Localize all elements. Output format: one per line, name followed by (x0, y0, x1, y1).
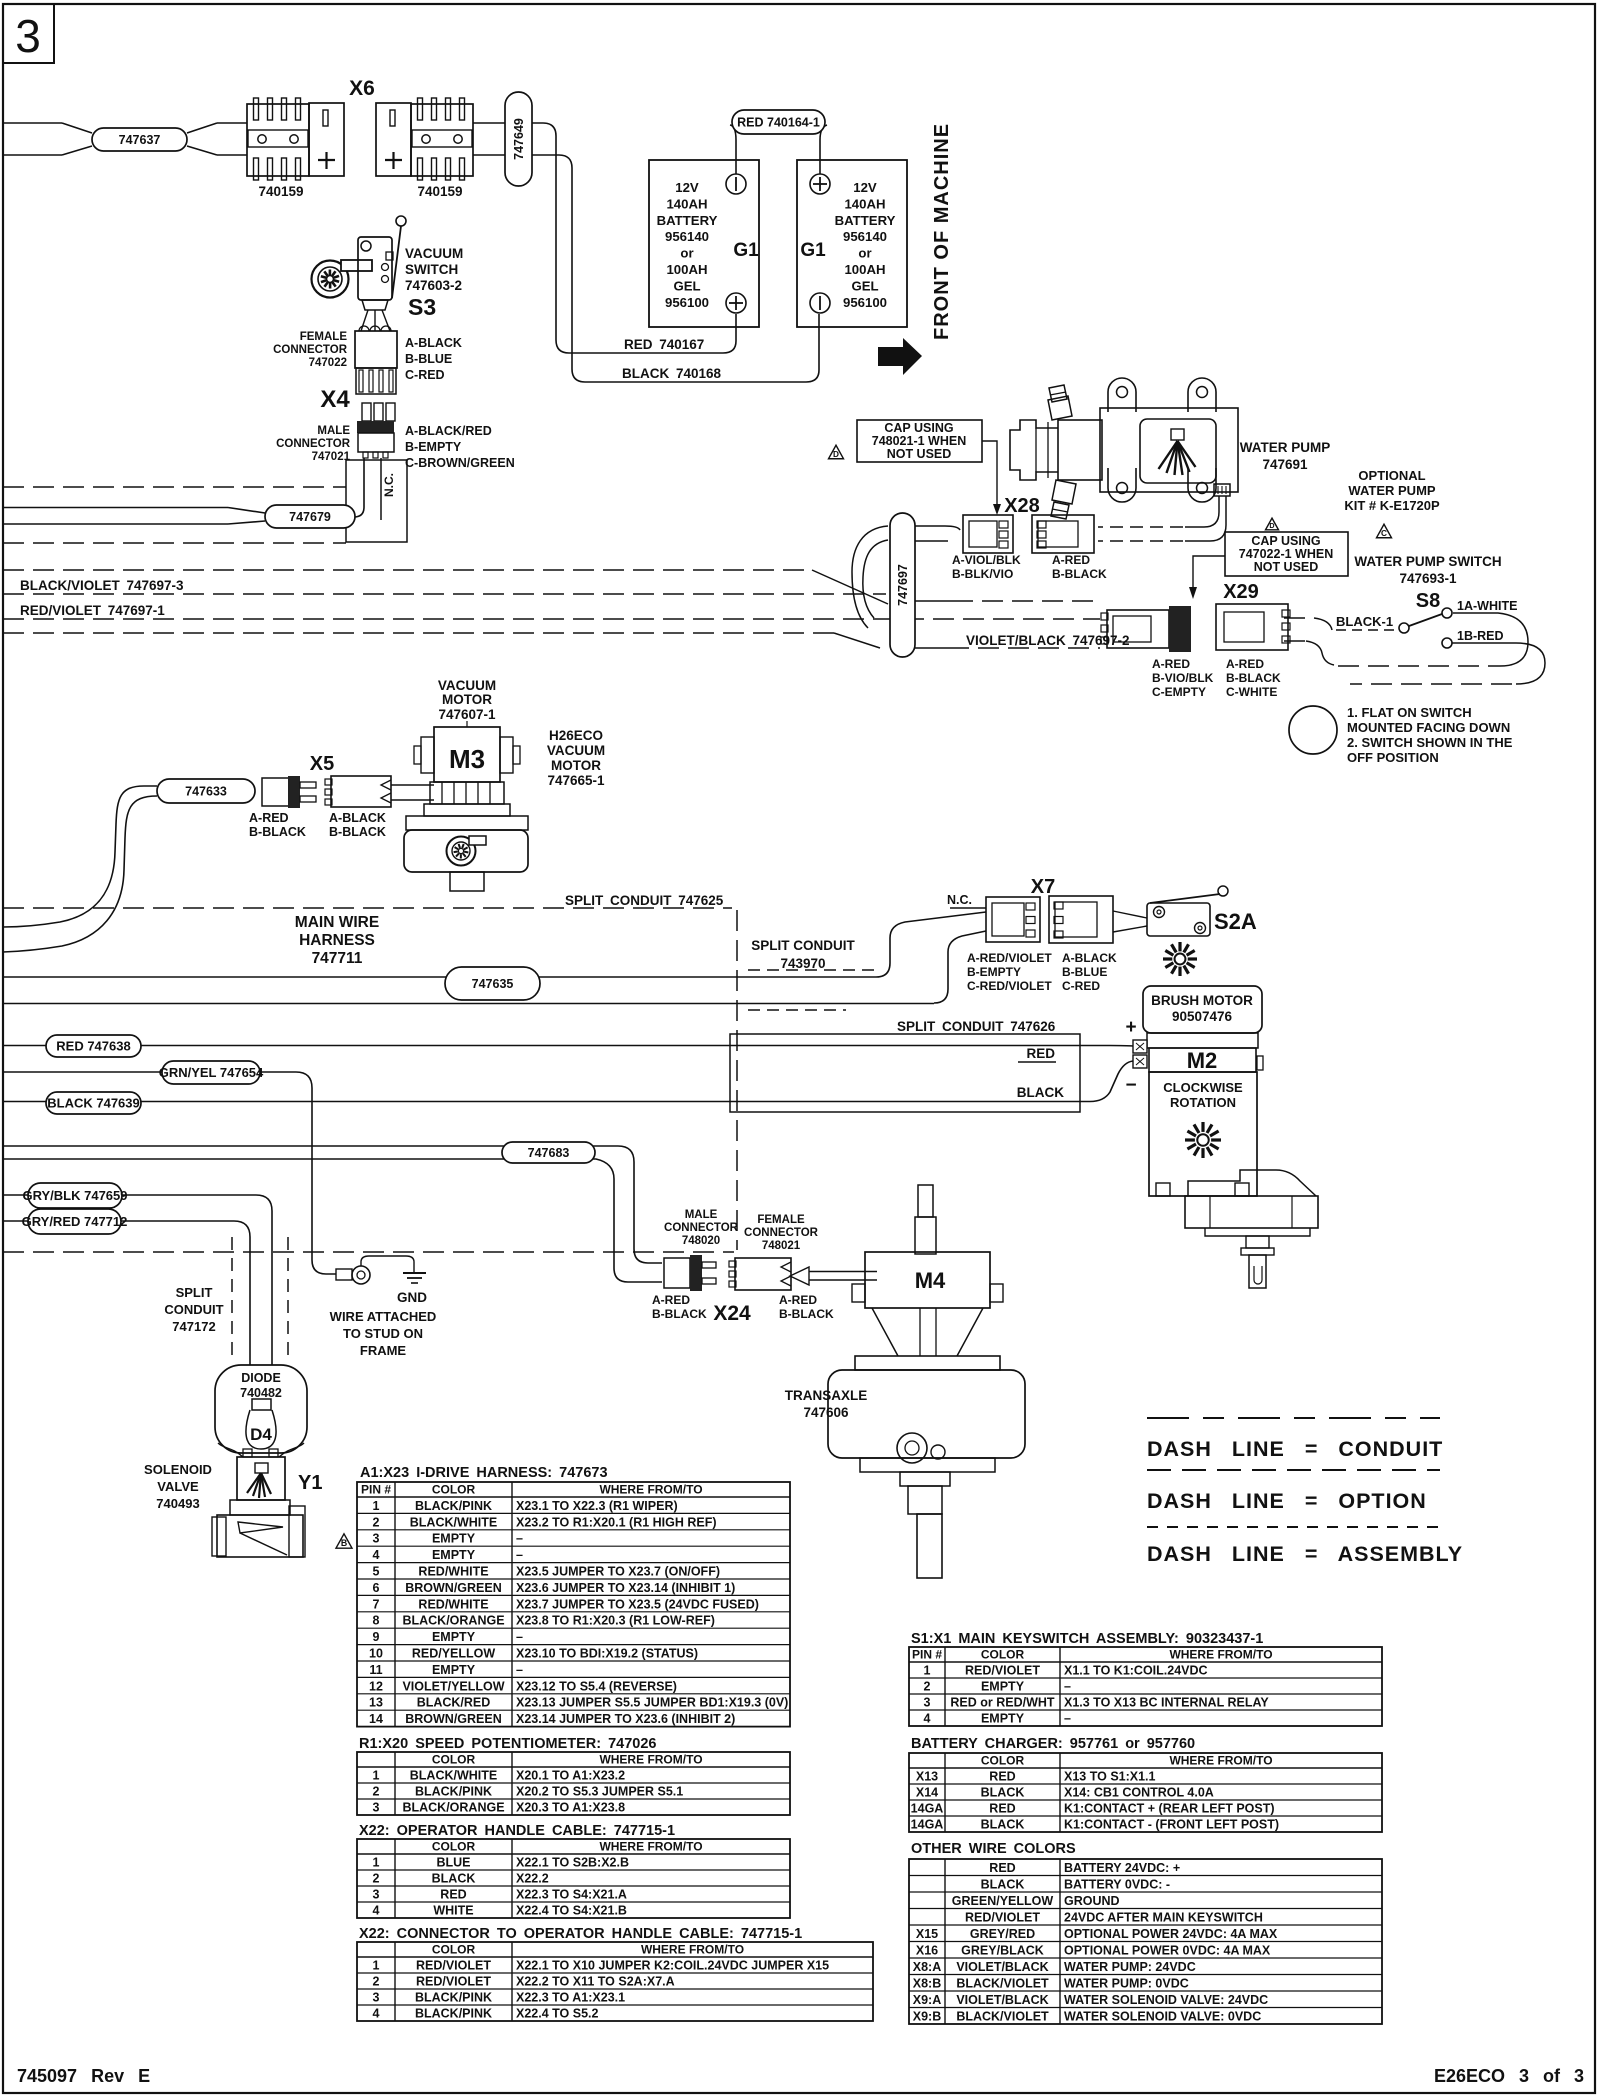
svg-text:CONNECTOR: CONNECTOR (664, 1222, 739, 1234)
svg-text:X22.2: X22.2 (516, 1872, 549, 1886)
svg-text:A-BLACK/RED: A-BLACK/RED (405, 424, 492, 438)
svg-text:VACUUM: VACUUM (405, 246, 463, 261)
svg-text:X23.1 TO X22.3 (R1 WIPER): X23.1 TO X22.3 (R1 WIPER) (516, 1499, 678, 1513)
svg-text:BATTERY 0VDC: -: BATTERY 0VDC: - (1064, 1878, 1170, 1892)
svg-text:WHERE FROM/TO: WHERE FROM/TO (599, 1483, 702, 1497)
svg-text:RED/WHITE: RED/WHITE (418, 1565, 488, 1579)
svg-text:BLUE: BLUE (436, 1856, 470, 1870)
svg-text:X15: X15 (916, 1927, 938, 1941)
svg-text:X23.7 JUMPER TO X23.5 (24V: X23.7 JUMPER TO X23.5 (24VDC FUSED) (516, 1597, 759, 1611)
svg-text:–: – (1064, 1712, 1071, 1726)
svg-text:B-EMPTY: B-EMPTY (405, 440, 462, 454)
svg-text:BLACK: BLACK (432, 1872, 476, 1886)
svg-text:X22: OPERATOR HANDLE CABLE:: X22: OPERATOR HANDLE CABLE: 747715-1 (359, 1823, 675, 1839)
svg-text:2: 2 (373, 1515, 380, 1529)
svg-text:747606: 747606 (803, 1405, 849, 1420)
svg-text:BROWN/GREEN: BROWN/GREEN (405, 1712, 502, 1726)
svg-text:C-RED/VIOLET: C-RED/VIOLET (967, 979, 1052, 993)
svg-text:BATTERY: BATTERY (657, 213, 718, 228)
svg-text:740159: 740159 (258, 184, 303, 199)
svg-text:B-BLACK: B-BLACK (329, 825, 386, 839)
svg-text:A-RED: A-RED (652, 1293, 690, 1307)
svg-text:G1: G1 (733, 240, 759, 261)
svg-text:B-BLACK: B-BLACK (249, 825, 306, 839)
svg-text:4: 4 (373, 1904, 380, 1918)
svg-text:BLACK: BLACK (981, 1786, 1025, 1800)
svg-text:1: 1 (924, 1664, 931, 1678)
svg-text:745097 Rev E: 745097 Rev E (17, 2066, 150, 2086)
svg-text:X16: X16 (916, 1944, 938, 1958)
svg-text:X23.8 TO R1:X20.3 (R1 LOW-: X23.8 TO R1:X20.3 (R1 LOW-REF) (516, 1614, 715, 1628)
svg-text:12V: 12V (675, 180, 699, 195)
svg-text:747022: 747022 (309, 357, 347, 369)
svg-text:VIOLET/YELLOW: VIOLET/YELLOW (402, 1679, 504, 1693)
svg-text:H26ECO: H26ECO (549, 728, 603, 743)
svg-text:747693-1: 747693-1 (1399, 571, 1457, 586)
svg-text:N.C.: N.C. (947, 893, 972, 907)
svg-text:3: 3 (15, 10, 41, 62)
svg-text:X7: X7 (1031, 876, 1055, 898)
svg-text:3: 3 (373, 1991, 380, 2005)
svg-text:X4: X4 (320, 386, 350, 413)
svg-text:COLOR: COLOR (432, 1943, 476, 1957)
svg-text:BRUSH MOTOR: BRUSH MOTOR (1151, 993, 1253, 1008)
svg-text:–: – (516, 1630, 523, 1644)
svg-text:1A-WHITE: 1A-WHITE (1457, 599, 1517, 613)
svg-text:3: 3 (373, 1801, 380, 1815)
svg-text:A-RED: A-RED (1226, 657, 1264, 671)
svg-text:GREY/BLACK: GREY/BLACK (961, 1944, 1044, 1958)
svg-text:747172: 747172 (172, 1319, 215, 1334)
svg-text:2: 2 (924, 1680, 931, 1694)
svg-text:OPTIONAL: OPTIONAL (1358, 468, 1425, 483)
svg-text:X23.13 JUMPER S5.5 JUMPER: X23.13 JUMPER S5.5 JUMPER BD1:X19.3 (0V) (516, 1696, 788, 1710)
svg-text:1: 1 (373, 1856, 380, 1870)
svg-text:BLACK/PINK: BLACK/PINK (415, 1499, 492, 1513)
svg-text:C-WHITE: C-WHITE (1226, 685, 1277, 699)
svg-text:X22.3 TO A1:X23.1: X22.3 TO A1:X23.1 (516, 1991, 625, 2005)
svg-text:S8: S8 (1416, 590, 1440, 612)
svg-text:WHERE FROM/TO: WHERE FROM/TO (641, 1943, 744, 1957)
svg-text:GRY/RED 747712: GRY/RED 747712 (22, 1214, 128, 1229)
svg-text:DIODE: DIODE (241, 1371, 281, 1385)
svg-text:747021: 747021 (312, 451, 351, 463)
svg-text:X23.5 JUMPER TO X23.7 (ON/: X23.5 JUMPER TO X23.7 (ON/OFF) (516, 1565, 720, 1579)
svg-text:D: D (833, 450, 839, 459)
svg-text:+: + (1125, 1017, 1136, 1038)
svg-text:WATER PUMP: 0VDC: WATER PUMP: 0VDC (1064, 1977, 1189, 1991)
svg-text:740493: 740493 (156, 1496, 199, 1511)
svg-text:CONNECTOR: CONNECTOR (744, 1227, 819, 1239)
svg-text:FEMALE: FEMALE (300, 331, 348, 343)
svg-text:ROTATION: ROTATION (1170, 1095, 1236, 1110)
svg-text:747637: 747637 (119, 133, 161, 147)
svg-text:90507476: 90507476 (1172, 1009, 1233, 1024)
svg-text:RED: RED (989, 1861, 1015, 1875)
svg-text:B-BLUE: B-BLUE (1062, 965, 1107, 979)
svg-text:24VDC AFTER MAIN KEYSWITCH: 24VDC AFTER MAIN KEYSWITCH (1064, 1911, 1263, 1925)
svg-text:956140: 956140 (843, 229, 887, 244)
svg-text:BLACK/PINK: BLACK/PINK (415, 2007, 492, 2021)
svg-text:TRANSAXLE: TRANSAXLE (785, 1388, 868, 1403)
svg-text:1: 1 (373, 1959, 380, 1973)
svg-text:OTHER WIRE COLORS: OTHER WIRE COLORS (911, 1841, 1076, 1857)
svg-text:WHERE FROM/TO: WHERE FROM/TO (599, 1840, 702, 1854)
svg-text:3: 3 (373, 1888, 380, 1902)
svg-text:A-RED/VIOLET: A-RED/VIOLET (967, 951, 1052, 965)
svg-text:X22.1 TO S2B:X2.B: X22.1 TO S2B:X2.B (516, 1856, 629, 1870)
svg-text:RED 740164-1: RED 740164-1 (737, 115, 820, 129)
svg-text:X23.14 JUMPER TO X23.6 (IN: X23.14 JUMPER TO X23.6 (INHIBIT 2) (516, 1712, 735, 1726)
svg-text:X13: X13 (916, 1770, 938, 1784)
svg-text:BLACK/VIOLET: BLACK/VIOLET (956, 1977, 1049, 1991)
svg-text:B-BLACK: B-BLACK (1226, 671, 1281, 685)
svg-text:BLACK/VIOLET 747697-3: BLACK/VIOLET 747697-3 (20, 578, 184, 593)
svg-text:BLACK 740168: BLACK 740168 (622, 366, 722, 381)
svg-text:RED/VIOLET: RED/VIOLET (965, 1911, 1040, 1925)
svg-text:X23.10 TO BDI:X19.2 (STATUS: X23.10 TO BDI:X19.2 (STATUS) (516, 1647, 698, 1661)
svg-text:NOT USED: NOT USED (887, 447, 952, 461)
svg-text:140AH: 140AH (844, 196, 885, 211)
svg-text:956140: 956140 (665, 229, 709, 244)
svg-text:E26ECO 3 of 3: E26ECO 3 of 3 (1434, 2066, 1584, 2086)
svg-text:X23.12 TO S5.4 (REVERSE): X23.12 TO S5.4 (REVERSE) (516, 1679, 677, 1693)
svg-text:WHERE FROM/TO: WHERE FROM/TO (599, 1753, 702, 1767)
svg-text:–: – (516, 1548, 523, 1562)
svg-text:M4: M4 (915, 1268, 946, 1293)
svg-text:RED: RED (440, 1888, 466, 1902)
svg-text:956100: 956100 (843, 295, 887, 310)
svg-text:X28: X28 (1004, 495, 1040, 517)
svg-text:4: 4 (373, 1548, 380, 1562)
svg-text:747635: 747635 (472, 977, 514, 991)
svg-text:X22: CONNECTOR TO OPERATOR: X22: CONNECTOR TO OPERATOR HANDLE CABLE:… (359, 1926, 802, 1942)
svg-text:748020: 748020 (682, 1235, 720, 1247)
svg-text:X9:B: X9:B (913, 2010, 941, 2024)
svg-text:GRN/YEL 747654: GRN/YEL 747654 (159, 1065, 264, 1080)
svg-text:GREY/RED: GREY/RED (970, 1927, 1035, 1941)
svg-text:KIT # K-E1720P: KIT # K-E1720P (1344, 498, 1440, 513)
svg-text:X23.6 JUMPER TO X23.14 (IN: X23.6 JUMPER TO X23.14 (INHIBIT 1) (516, 1581, 735, 1595)
svg-text:B-EMPTY: B-EMPTY (967, 965, 1021, 979)
svg-text:OFF POSITION: OFF POSITION (1347, 750, 1439, 765)
svg-text:956100: 956100 (665, 295, 709, 310)
svg-text:12: 12 (369, 1679, 383, 1693)
svg-text:A-BLACK: A-BLACK (1062, 951, 1117, 965)
svg-text:747691: 747691 (1262, 457, 1308, 472)
svg-text:X22.3 TO S4:X21.A: X22.3 TO S4:X21.A (516, 1888, 627, 1902)
svg-text:SPLIT CONDUIT: SPLIT CONDUIT (751, 938, 855, 953)
svg-text:SWITCH: SWITCH (405, 262, 458, 277)
svg-text:C: C (1381, 529, 1387, 538)
svg-text:RED/VIOLET 747697-1: RED/VIOLET 747697-1 (20, 603, 165, 618)
svg-text:EMPTY: EMPTY (432, 1532, 476, 1546)
svg-text:14: 14 (369, 1712, 383, 1726)
svg-text:–: – (1064, 1680, 1071, 1694)
svg-text:140AH: 140AH (666, 196, 707, 211)
svg-text:X20.2 TO S5.3 JUMPER S5.1: X20.2 TO S5.3 JUMPER S5.1 (516, 1785, 683, 1799)
svg-text:2: 2 (373, 1975, 380, 1989)
svg-text:SPLIT CONDUIT 747625: SPLIT CONDUIT 747625 (565, 893, 724, 908)
svg-text:G1: G1 (800, 240, 826, 261)
svg-text:X22.1 TO X10 JUMPER K2:COI: X22.1 TO X10 JUMPER K2:COIL.24VDC JUMPER… (516, 1959, 829, 1973)
svg-text:RED: RED (989, 1802, 1015, 1816)
svg-text:WATER PUMP: WATER PUMP (1240, 440, 1331, 455)
svg-text:BLACK/PINK: BLACK/PINK (415, 1785, 492, 1799)
svg-text:WHITE: WHITE (433, 1904, 473, 1918)
svg-text:FRAME: FRAME (360, 1343, 407, 1358)
svg-text:MALE: MALE (685, 1209, 718, 1221)
svg-text:–: – (516, 1663, 523, 1677)
svg-text:BATTERY: BATTERY (835, 213, 896, 228)
svg-text:X14: CB1 CONTROL 4.0A: X14: CB1 CONTROL 4.0A (1064, 1786, 1214, 1800)
svg-text:10: 10 (369, 1647, 383, 1661)
svg-text:X9:A: X9:A (913, 1993, 941, 2007)
svg-text:OPTIONAL POWER 0VDC: 4A MA: OPTIONAL POWER 0VDC: 4A MAX (1064, 1944, 1271, 1958)
svg-text:RED/WHITE: RED/WHITE (418, 1597, 488, 1611)
svg-text:EMPTY: EMPTY (981, 1680, 1025, 1694)
svg-text:BLACK: BLACK (981, 1878, 1025, 1892)
svg-text:14GA: 14GA (911, 1818, 944, 1832)
svg-text:BLACK/RED: BLACK/RED (417, 1696, 491, 1710)
svg-text:K1:CONTACT + (REAR LEFT PO: K1:CONTACT + (REAR LEFT POST) (1064, 1802, 1275, 1816)
svg-text:747711: 747711 (312, 950, 363, 967)
svg-text:PIN #: PIN # (361, 1483, 391, 1497)
svg-text:BLACK-1: BLACK-1 (1336, 614, 1393, 629)
svg-text:or: or (858, 246, 871, 261)
svg-text:RED/VIOLET: RED/VIOLET (416, 1975, 491, 1989)
svg-text:GEL: GEL (673, 278, 700, 293)
svg-text:WHERE FROM/TO: WHERE FROM/TO (1169, 1648, 1272, 1662)
svg-text:A-BLACK: A-BLACK (329, 811, 386, 825)
svg-text:CONNECTOR: CONNECTOR (276, 438, 351, 450)
svg-text:3: 3 (924, 1696, 931, 1710)
svg-text:WATER SOLENOID VALVE: 24VDC: WATER SOLENOID VALVE: 24VDC (1064, 1993, 1268, 2007)
svg-text:R1:X20 SPEED POTENTIOMETER:: R1:X20 SPEED POTENTIOMETER: 747026 (359, 1736, 657, 1752)
svg-text:M2: M2 (1187, 1048, 1218, 1073)
svg-text:S3: S3 (408, 294, 436, 320)
svg-text:1: 1 (373, 1769, 380, 1783)
svg-text:1: 1 (373, 1499, 380, 1513)
svg-text:A1:X23 I-DRIVE HARNESS: 747: A1:X23 I-DRIVE HARNESS: 747673 (360, 1465, 608, 1481)
svg-text:2: 2 (373, 1785, 380, 1799)
svg-text:CONDUIT: CONDUIT (164, 1302, 223, 1317)
svg-text:DASH LINE = OPTION: DASH LINE = OPTION (1147, 1489, 1427, 1513)
svg-text:BLACK/VIOLET: BLACK/VIOLET (956, 2010, 1049, 2024)
svg-text:BLACK/WHITE: BLACK/WHITE (410, 1769, 498, 1783)
svg-text:CAP USING: CAP USING (884, 421, 953, 435)
svg-text:BLACK/ORANGE: BLACK/ORANGE (402, 1614, 504, 1628)
svg-text:BLACK: BLACK (981, 1818, 1025, 1832)
svg-text:CLOCKWISE: CLOCKWISE (1163, 1080, 1243, 1095)
svg-text:X20.3 TO A1:X23.8: X20.3 TO A1:X23.8 (516, 1801, 625, 1815)
svg-text:A-RED: A-RED (1052, 553, 1090, 567)
svg-text:14GA: 14GA (911, 1802, 944, 1816)
svg-text:OPTIONAL POWER 24VDC: 4A M: OPTIONAL POWER 24VDC: 4A MAX (1064, 1927, 1278, 1941)
svg-text:747697: 747697 (896, 564, 910, 606)
svg-text:CONNECTOR: CONNECTOR (273, 344, 348, 356)
svg-text:DASH LINE = ASSEMBLY: DASH LINE = ASSEMBLY (1147, 1542, 1463, 1566)
svg-text:C-EMPTY: C-EMPTY (1152, 685, 1206, 699)
svg-text:747679: 747679 (289, 510, 331, 524)
svg-text:BLACK 747639: BLACK 747639 (47, 1096, 140, 1111)
svg-text:GREEN/YELLOW: GREEN/YELLOW (952, 1894, 1054, 1908)
svg-text:B-BLACK: B-BLACK (652, 1307, 707, 1321)
svg-text:VIOLET/BLACK: VIOLET/BLACK (956, 1960, 1048, 1974)
svg-text:WHERE FROM/TO: WHERE FROM/TO (1169, 1754, 1272, 1768)
svg-text:GND: GND (397, 1290, 427, 1305)
svg-text:MOTOR: MOTOR (442, 692, 492, 707)
svg-text:A-RED: A-RED (779, 1293, 817, 1307)
svg-text:RED or RED/WHT: RED or RED/WHT (950, 1696, 1055, 1710)
svg-text:3: 3 (373, 1532, 380, 1546)
svg-text:VIOLET/BLACK 747697-2: VIOLET/BLACK 747697-2 (966, 633, 1130, 648)
svg-text:747683: 747683 (528, 1146, 570, 1160)
svg-text:GROUND: GROUND (1064, 1894, 1120, 1908)
svg-text:EMPTY: EMPTY (432, 1548, 476, 1562)
svg-text:EMPTY: EMPTY (981, 1712, 1025, 1726)
svg-text:X14: X14 (916, 1786, 938, 1800)
svg-text:VACUUM: VACUUM (438, 678, 496, 693)
svg-text:747603-2: 747603-2 (405, 278, 462, 293)
svg-text:HARNESS: HARNESS (299, 932, 375, 949)
svg-text:A-RED: A-RED (249, 811, 289, 825)
svg-text:BLACK/PINK: BLACK/PINK (415, 1991, 492, 2005)
svg-text:2. SWITCH SHOWN IN THE: 2. SWITCH SHOWN IN THE (1347, 735, 1513, 750)
svg-text:SPLIT: SPLIT (176, 1285, 213, 1300)
svg-text:RED/VIOLET: RED/VIOLET (416, 1959, 491, 1973)
svg-text:VIOLET/BLACK: VIOLET/BLACK (956, 1993, 1048, 2007)
svg-text:Y1: Y1 (298, 1472, 322, 1494)
svg-text:DASH LINE = CONDUIT: DASH LINE = CONDUIT (1147, 1437, 1443, 1461)
svg-text:VACUUM: VACUUM (547, 743, 605, 758)
svg-text:4: 4 (373, 2007, 380, 2021)
svg-text:WATER PUMP SWITCH: WATER PUMP SWITCH (1354, 554, 1501, 569)
svg-text:RED/VIOLET: RED/VIOLET (965, 1664, 1040, 1678)
svg-text:−: − (1125, 1075, 1136, 1096)
svg-text:747633: 747633 (185, 784, 227, 798)
svg-text:PIN #: PIN # (912, 1648, 942, 1662)
svg-text:X20.1 TO A1:X23.2: X20.1 TO A1:X23.2 (516, 1769, 625, 1783)
svg-text:X13 TO S1:X1.1: X13 TO S1:X1.1 (1064, 1770, 1156, 1784)
svg-text:X1.3 TO X13 BC INTERNAL R: X1.3 TO X13 BC INTERNAL RELAY (1064, 1696, 1269, 1710)
svg-text:1. FLAT ON SWITCH: 1. FLAT ON SWITCH (1347, 705, 1472, 720)
svg-text:A-VIOL/BLK: A-VIOL/BLK (952, 553, 1021, 567)
svg-text:1B-RED: 1B-RED (1457, 629, 1504, 643)
svg-text:740159: 740159 (417, 184, 462, 199)
svg-text:FEMALE: FEMALE (757, 1214, 805, 1226)
svg-text:EMPTY: EMPTY (432, 1630, 476, 1644)
svg-text:RED 740167: RED 740167 (624, 337, 704, 352)
svg-text:GEL: GEL (851, 278, 878, 293)
svg-text:WATER SOLENOID VALVE: 0VDC: WATER SOLENOID VALVE: 0VDC (1064, 2010, 1261, 2024)
svg-text:RED 747638: RED 747638 (56, 1039, 130, 1054)
svg-text:TO STUD ON: TO STUD ON (343, 1326, 423, 1341)
svg-text:X5: X5 (310, 753, 334, 775)
svg-text:A-RED: A-RED (1152, 657, 1190, 671)
svg-text:SOLENOID: SOLENOID (144, 1462, 212, 1477)
svg-text:N.C.: N.C. (382, 473, 396, 497)
svg-text:RED: RED (1026, 1046, 1055, 1061)
svg-text:748021-1 WHEN: 748021-1 WHEN (872, 434, 967, 448)
svg-text:CAP USING: CAP USING (1251, 534, 1320, 548)
svg-text:S1:X1 MAIN KEYSWITCH ASSEMB: S1:X1 MAIN KEYSWITCH ASSEMBLY: 90323437-… (911, 1631, 1263, 1647)
svg-text:X8:A: X8:A (913, 1960, 941, 1974)
svg-text:or: or (680, 246, 693, 261)
svg-text:WIRE ATTACHED: WIRE ATTACHED (330, 1309, 437, 1324)
svg-text:D4: D4 (250, 1425, 272, 1444)
svg-text:748021: 748021 (762, 1240, 801, 1252)
svg-text:X22.2 TO X11 TO S2A:X7.A: X22.2 TO X11 TO S2A:X7.A (516, 1975, 675, 1989)
svg-text:C-BROWN/GREEN: C-BROWN/GREEN (405, 456, 515, 470)
svg-text:MOTOR: MOTOR (551, 758, 601, 773)
svg-text:COLOR: COLOR (432, 1840, 476, 1854)
svg-text:WATER PUMP: 24VDC: WATER PUMP: 24VDC (1064, 1960, 1196, 1974)
svg-text:BLACK/WHITE: BLACK/WHITE (410, 1515, 498, 1529)
svg-text:K1:CONTACT - (FRONT LEFT P: K1:CONTACT - (FRONT LEFT POST) (1064, 1818, 1279, 1832)
svg-text:COLOR: COLOR (432, 1753, 476, 1767)
svg-text:GRY/BLK 747659: GRY/BLK 747659 (22, 1188, 127, 1203)
svg-text:–: – (516, 1532, 523, 1546)
svg-text:MAIN WIRE: MAIN WIRE (295, 914, 379, 931)
svg-text:MALE: MALE (317, 425, 350, 437)
svg-text:743970: 743970 (780, 956, 825, 971)
svg-text:S2A: S2A (1214, 909, 1257, 934)
svg-text:COLOR: COLOR (981, 1754, 1025, 1768)
svg-text:B-BLACK: B-BLACK (779, 1307, 834, 1321)
svg-text:B: B (341, 1538, 347, 1548)
svg-text:5: 5 (373, 1565, 380, 1579)
svg-text:X22.4 TO S5.2: X22.4 TO S5.2 (516, 2007, 599, 2021)
svg-text:COLOR: COLOR (981, 1648, 1025, 1662)
svg-text:WATER PUMP: WATER PUMP (1348, 483, 1435, 498)
svg-text:6: 6 (373, 1581, 380, 1595)
svg-text:X8:B: X8:B (913, 1977, 941, 1991)
svg-text:X1.1 TO K1:COIL.24VDC: X1.1 TO K1:COIL.24VDC (1064, 1664, 1208, 1678)
svg-text:RED: RED (989, 1770, 1015, 1784)
svg-text:9: 9 (373, 1630, 380, 1644)
svg-text:BATTERY 24VDC: +: BATTERY 24VDC: + (1064, 1861, 1180, 1875)
svg-text:RED/YELLOW: RED/YELLOW (412, 1647, 496, 1661)
svg-text:100AH: 100AH (666, 262, 707, 277)
svg-text:X29: X29 (1223, 581, 1259, 603)
svg-text:747649: 747649 (512, 118, 526, 160)
svg-text:12V: 12V (853, 180, 877, 195)
svg-text:747665-1: 747665-1 (547, 773, 605, 788)
svg-text:13: 13 (369, 1696, 383, 1710)
svg-text:B-VIO/BLK: B-VIO/BLK (1152, 671, 1214, 685)
svg-text:100AH: 100AH (844, 262, 885, 277)
svg-text:C-RED: C-RED (1062, 979, 1100, 993)
svg-text:MOUNTED FACING DOWN: MOUNTED FACING DOWN (1347, 720, 1510, 735)
svg-text:COLOR: COLOR (432, 1483, 476, 1497)
svg-text:740482: 740482 (240, 1386, 282, 1400)
svg-text:BROWN/GREEN: BROWN/GREEN (405, 1581, 502, 1595)
svg-text:X24: X24 (713, 1302, 751, 1325)
svg-text:VALVE: VALVE (157, 1479, 199, 1494)
svg-text:11: 11 (369, 1663, 382, 1677)
svg-text:8: 8 (373, 1614, 380, 1628)
svg-text:BATTERY CHARGER: 957761 or: BATTERY CHARGER: 957761 or 957760 (911, 1736, 1195, 1752)
svg-text:BLACK/ORANGE: BLACK/ORANGE (402, 1801, 504, 1815)
svg-text:2: 2 (373, 1872, 380, 1886)
svg-text:B-BLACK: B-BLACK (1052, 567, 1107, 581)
svg-text:X6: X6 (349, 77, 375, 100)
svg-text:SPLIT CONDUIT 747626: SPLIT CONDUIT 747626 (897, 1019, 1056, 1034)
svg-text:X22.4 TO S4:X21.B: X22.4 TO S4:X21.B (516, 1904, 627, 1918)
svg-text:D: D (1269, 522, 1274, 530)
svg-text:747022-1 WHEN: 747022-1 WHEN (1239, 547, 1334, 561)
